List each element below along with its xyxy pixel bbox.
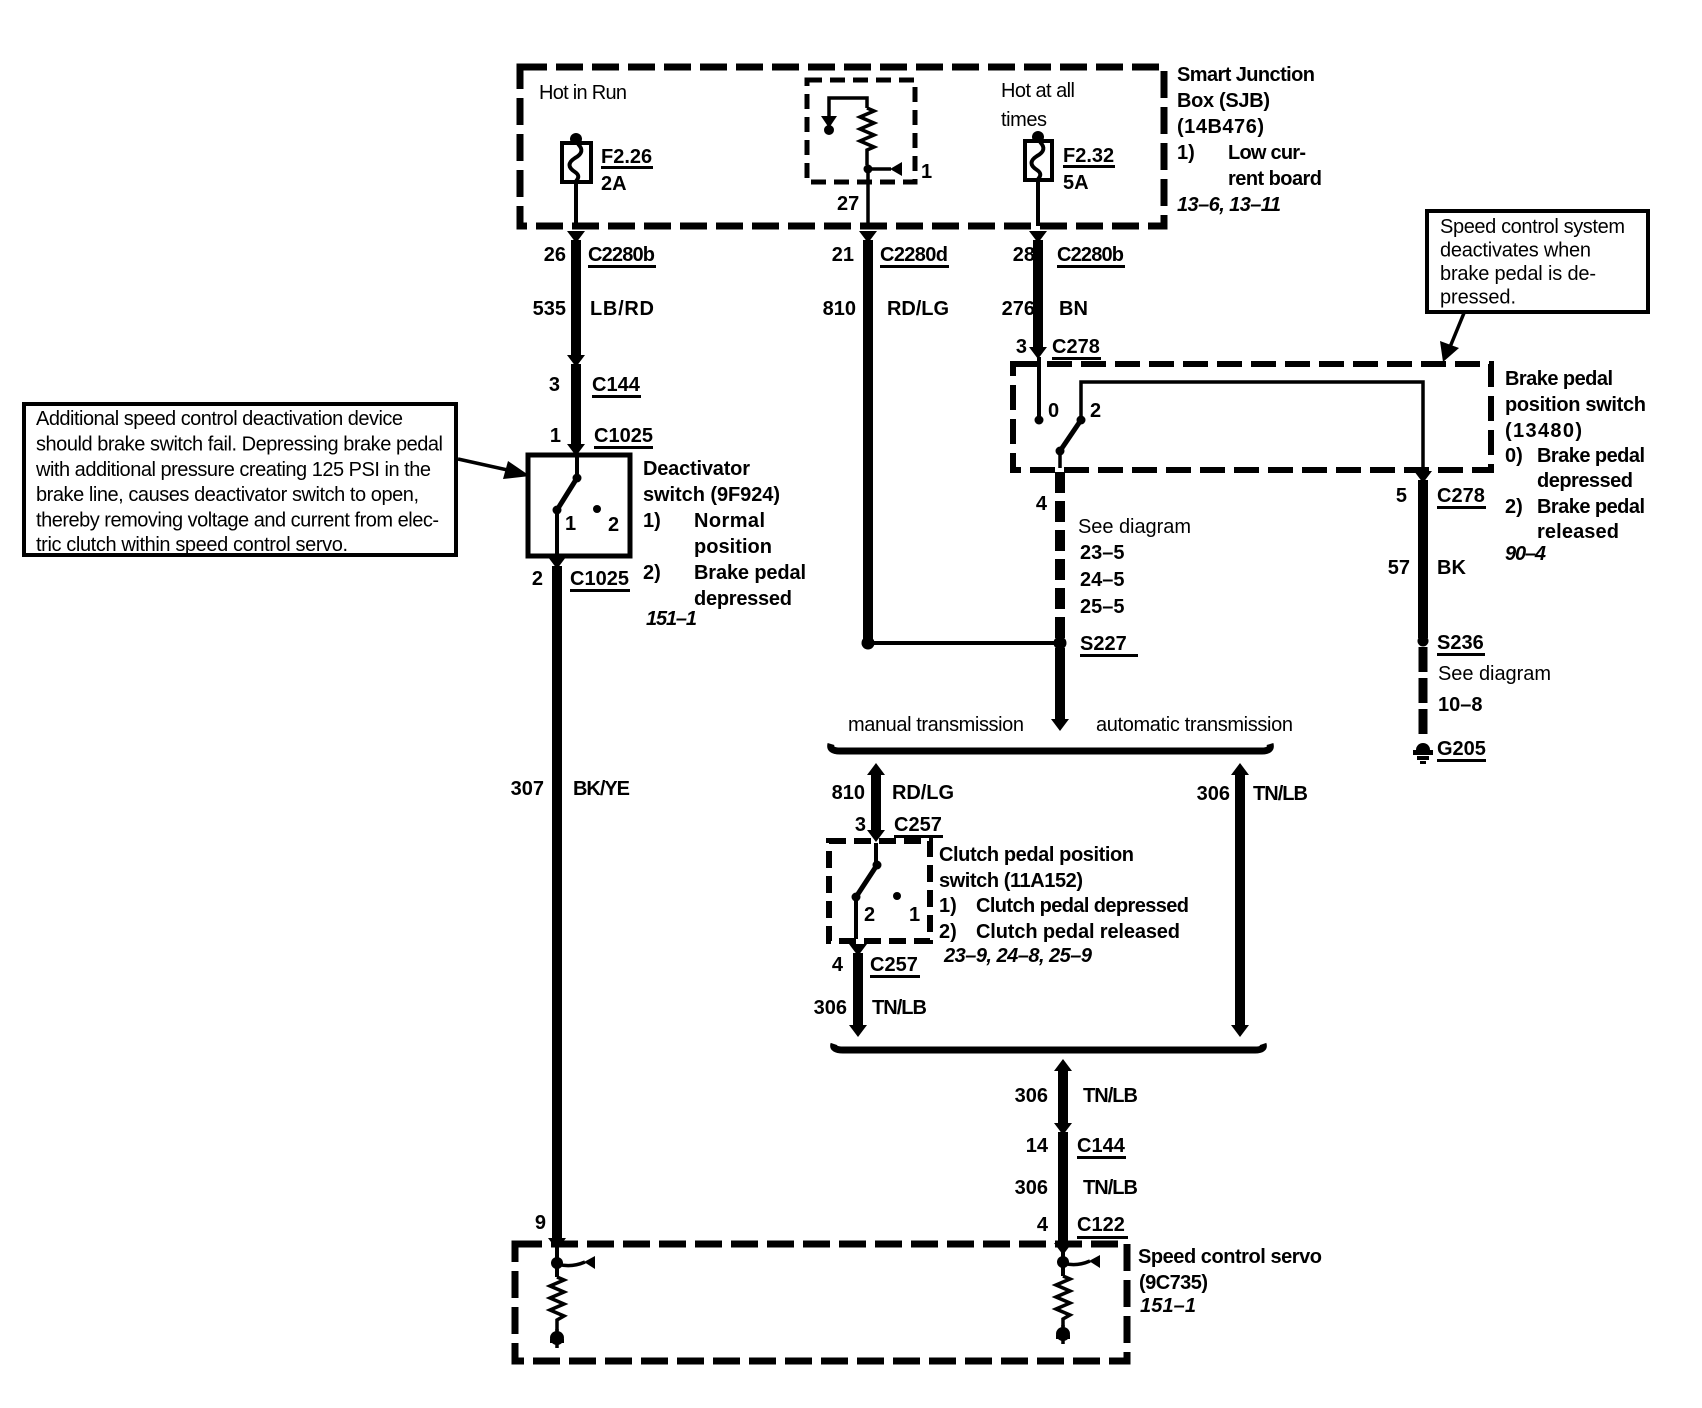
svg-text:4: 4 <box>1037 1214 1049 1236</box>
svg-text:1): 1) <box>1177 142 1195 164</box>
svg-text:Brake pedal: Brake pedal <box>1537 445 1645 467</box>
manual branch: up arrow and wire 810 RD/LG <box>832 763 954 832</box>
SJB label text <box>1177 64 1322 216</box>
svg-text:switch (11A152): switch (11A152) <box>939 870 1083 892</box>
svg-text:Clutch pedal released: Clutch pedal released <box>976 921 1180 943</box>
svg-text:depressed: depressed <box>1537 470 1633 492</box>
svg-text:rent board: rent board <box>1228 168 1322 190</box>
svg-text:TN/LB: TN/LB <box>1253 783 1308 805</box>
speed control servo (9C735) dashed box <box>515 1244 1127 1361</box>
svg-text:2): 2) <box>939 921 957 943</box>
svg-text:times: times <box>1001 109 1047 131</box>
svg-text:C144: C144 <box>1077 1135 1126 1157</box>
svg-text:See diagram: See diagram <box>1438 663 1551 685</box>
svg-text:automatic transmission: automatic transmission <box>1096 714 1293 736</box>
svg-text:4: 4 <box>1036 493 1048 515</box>
svg-text:released: released <box>1537 521 1619 543</box>
svg-text:Hot in Run: Hot in Run <box>539 82 627 104</box>
svg-text:BK/YE: BK/YE <box>573 778 630 800</box>
svg-text:position: position <box>694 536 772 558</box>
svg-text:TN/LB: TN/LB <box>1083 1177 1138 1199</box>
svg-text:4: 4 <box>832 954 844 976</box>
svg-text:2): 2) <box>1505 496 1523 518</box>
arrow from left note box to deactivator switch <box>458 459 530 479</box>
svg-text:Brake pedal: Brake pedal <box>1505 368 1613 390</box>
svg-text:S236: S236 <box>1437 632 1484 654</box>
svg-text:Hot at all: Hot at all <box>1001 80 1075 102</box>
svg-text:Box (SJB): Box (SJB) <box>1177 90 1270 112</box>
connector C144 <box>549 355 641 445</box>
svg-text:Normal: Normal <box>694 510 765 532</box>
svg-text:BN: BN <box>1059 298 1088 320</box>
svg-text:28: 28 <box>1013 244 1035 266</box>
svg-text:25–5: 25–5 <box>1080 596 1125 618</box>
right servo clutch element <box>1054 1243 1100 1344</box>
svg-text:306: 306 <box>1197 783 1230 805</box>
svg-text:position switch: position switch <box>1505 394 1646 416</box>
connector C278 top <box>1016 336 1101 418</box>
svg-text:thereby removing voltage and c: thereby removing voltage and current fro… <box>36 510 439 532</box>
ground G205 <box>1413 738 1486 763</box>
svg-text:1: 1 <box>550 425 561 447</box>
svg-text:23–9, 24–8, 25–9: 23–9, 24–8, 25–9 <box>943 945 1093 967</box>
clutch pedal position switch (11A152) dashed box <box>829 841 930 941</box>
svg-text:535: 535 <box>533 298 566 320</box>
svg-text:deactivates when: deactivates when <box>1440 240 1591 262</box>
wire S227 down to transmission split <box>1051 648 1069 731</box>
svg-text:2: 2 <box>532 568 543 590</box>
brake pedal position switch (13480) dashed box <box>1013 364 1491 470</box>
connector C144 bottom <box>1015 1123 1138 1243</box>
svg-text:Clutch pedal depressed: Clutch pedal depressed <box>976 895 1189 917</box>
automatic branch wire 306 TN/LB <box>1197 763 1308 1037</box>
svg-text:23–5: 23–5 <box>1080 542 1125 564</box>
svg-text:depressed: depressed <box>694 588 792 610</box>
svg-text:Brake pedal: Brake pedal <box>1537 496 1645 518</box>
wire 307 BK/YE long run <box>511 566 630 1243</box>
brake switch internals <box>1035 382 1424 468</box>
wire middle (RD/LG) below SJB <box>823 231 949 643</box>
connector C1025 bottom <box>532 557 630 591</box>
svg-text:276: 276 <box>1002 298 1035 320</box>
svg-text:0): 0) <box>1505 445 1523 467</box>
deactivator switch internals <box>553 457 620 554</box>
wire fuse F2.26 to SJB bottom <box>574 182 578 226</box>
top bus bar <box>831 744 1271 751</box>
svg-text:27: 27 <box>837 193 859 215</box>
svg-text:C2280d: C2280d <box>880 244 948 266</box>
svg-text:(14B476): (14B476) <box>1177 116 1264 138</box>
connector C257 bottom <box>814 944 927 1037</box>
svg-text:3: 3 <box>1016 336 1027 358</box>
svg-text:Clutch pedal position: Clutch pedal position <box>939 844 1134 866</box>
svg-text:0: 0 <box>1048 400 1059 422</box>
right note box <box>1427 211 1648 312</box>
svg-text:2: 2 <box>1090 400 1101 422</box>
svg-text:Smart Junction: Smart Junction <box>1177 64 1315 86</box>
wire below bottom bus 306 TN/LB <box>1015 1059 1138 1126</box>
svg-text:2A: 2A <box>601 173 627 195</box>
clutch switch internals <box>852 843 921 939</box>
svg-text:C2280b: C2280b <box>588 244 655 266</box>
svg-text:pressed.: pressed. <box>1440 287 1516 309</box>
svg-text:2): 2) <box>643 562 661 584</box>
svg-text:C257: C257 <box>894 814 942 836</box>
svg-text:151–1: 151–1 <box>646 608 697 630</box>
svg-text:TN/LB: TN/LB <box>1083 1085 1138 1107</box>
brake switch label text <box>1505 368 1646 565</box>
svg-text:1: 1 <box>565 513 576 535</box>
svg-text:F2.26: F2.26 <box>601 146 652 168</box>
svg-text:306: 306 <box>814 997 847 1019</box>
svg-text:3: 3 <box>549 374 560 396</box>
fuse F2.26 <box>562 133 653 195</box>
svg-text:21: 21 <box>832 244 854 266</box>
svg-text:810: 810 <box>823 298 856 320</box>
svg-text:1): 1) <box>939 895 957 917</box>
svg-text:5A: 5A <box>1063 172 1089 194</box>
svg-text:C1025: C1025 <box>570 568 629 590</box>
wire right (BN) below SJB <box>1002 231 1125 350</box>
svg-text:C122: C122 <box>1077 1214 1125 1236</box>
see diagram 23-5 24-5 25-5 <box>1078 516 1191 618</box>
servo label text <box>1138 1246 1322 1317</box>
svg-text:(13480): (13480) <box>1505 420 1582 442</box>
arrow from right note box to brake switch box <box>1440 313 1464 362</box>
svg-text:LB/RD: LB/RD <box>590 298 654 320</box>
svg-text:2: 2 <box>864 904 875 926</box>
svg-text:1: 1 <box>921 161 932 183</box>
svg-text:Additional speed control deact: Additional speed control deactivation de… <box>36 408 403 430</box>
fuse F2.32 <box>1025 131 1115 194</box>
relay coil and contact <box>821 98 932 226</box>
deactivator switch label text <box>643 458 806 630</box>
svg-text:with additional pressure creat: with additional pressure creating 125 PS… <box>35 459 431 481</box>
svg-text:24–5: 24–5 <box>1080 569 1125 591</box>
left note box <box>24 404 456 556</box>
svg-text:90–4: 90–4 <box>1505 543 1546 565</box>
svg-text:Speed control system: Speed control system <box>1440 216 1625 238</box>
wire fuse F2.32 to SJB bottom <box>1036 180 1040 226</box>
dashed wire pin4 to S227 <box>1055 472 1065 638</box>
bottom bus bar <box>834 1044 1264 1050</box>
pin 5 / C278 below brake box <box>1388 471 1486 638</box>
svg-text:G205: G205 <box>1437 738 1486 760</box>
dashed wire S236 to ground <box>1419 647 1428 734</box>
svg-text:switch (9F924): switch (9F924) <box>643 484 780 506</box>
svg-text:brake pedal is de-: brake pedal is de- <box>1440 263 1596 285</box>
svg-text:2: 2 <box>608 514 619 536</box>
svg-text:151–1: 151–1 <box>1140 1295 1196 1317</box>
svg-text:F2.32: F2.32 <box>1063 145 1114 167</box>
svg-text:10–8: 10–8 <box>1438 694 1483 716</box>
svg-text:(9C735): (9C735) <box>1139 1272 1208 1294</box>
svg-text:See diagram: See diagram <box>1078 516 1191 538</box>
svg-text:C1025: C1025 <box>594 425 653 447</box>
svg-text:C144: C144 <box>592 374 641 396</box>
relay in SJB dashed box <box>807 80 915 182</box>
splice S227 <box>862 633 1139 656</box>
svg-text:C2280b: C2280b <box>1057 244 1124 266</box>
svg-text:3: 3 <box>855 814 866 836</box>
svg-text:RD/LG: RD/LG <box>892 782 954 804</box>
svg-text:14: 14 <box>1026 1135 1049 1157</box>
svg-text:13–6, 13–11: 13–6, 13–11 <box>1177 194 1281 216</box>
svg-text:should brake switch fail. Depr: should brake switch fail. Depressing bra… <box>36 434 443 456</box>
svg-text:tric clutch within speed contr: tric clutch within speed control servo. <box>36 534 348 556</box>
deactivator switch (9F924) box <box>528 455 630 556</box>
svg-text:Brake pedal: Brake pedal <box>694 562 806 584</box>
svg-text:manual transmission: manual transmission <box>848 714 1024 736</box>
svg-text:307: 307 <box>511 778 544 800</box>
svg-text:9: 9 <box>535 1212 546 1234</box>
svg-text:810: 810 <box>832 782 865 804</box>
svg-text:RD/LG: RD/LG <box>887 298 949 320</box>
Smart Junction Box (SJB) dashed box <box>520 67 1164 226</box>
svg-text:1: 1 <box>909 904 920 926</box>
svg-text:306: 306 <box>1015 1085 1048 1107</box>
left servo clutch element <box>548 1238 595 1348</box>
svg-text:306: 306 <box>1015 1177 1048 1199</box>
wire left (LB/RD) below SJB <box>533 231 656 356</box>
connector C1025 top <box>550 425 653 456</box>
svg-text:C257: C257 <box>870 954 918 976</box>
svg-text:57: 57 <box>1388 557 1410 579</box>
svg-text:BK: BK <box>1437 557 1466 579</box>
svg-text:C278: C278 <box>1052 336 1100 358</box>
splice S236 <box>1418 632 1486 655</box>
clutch switch label text <box>939 844 1189 967</box>
svg-text:Speed control servo: Speed control servo <box>1138 1246 1322 1268</box>
svg-text:TN/LB: TN/LB <box>872 997 927 1019</box>
svg-text:5: 5 <box>1396 485 1407 507</box>
connector C257 top <box>855 814 943 842</box>
svg-text:Deactivator: Deactivator <box>643 458 750 480</box>
svg-text:Low cur-: Low cur- <box>1228 142 1306 164</box>
svg-text:brake line, causes deactivator: brake line, causes deactivator switch to… <box>36 484 419 506</box>
svg-text:26: 26 <box>544 244 566 266</box>
svg-text:1): 1) <box>643 510 661 532</box>
svg-text:S227: S227 <box>1080 633 1127 655</box>
svg-text:C278: C278 <box>1437 485 1485 507</box>
